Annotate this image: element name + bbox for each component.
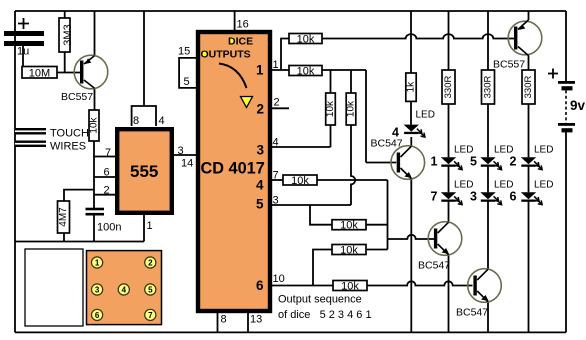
svg-text:7: 7 xyxy=(431,190,438,204)
resistor 330R col2 xyxy=(482,70,495,104)
svg-text:8: 8 xyxy=(221,314,227,326)
svg-text:1k: 1k xyxy=(406,81,417,93)
dice spot 1 xyxy=(92,257,103,268)
svg-text:5: 5 xyxy=(256,197,264,212)
LED 5 xyxy=(470,145,513,170)
wire branch down to 10k xyxy=(310,205,332,225)
ic CD4017 xyxy=(198,32,270,311)
resistor 10k pin1 upper xyxy=(289,34,322,46)
wire 4017 pin3 (dice 5) xyxy=(272,204,351,206)
wire 555 supply column xyxy=(143,11,145,106)
svg-text:1: 1 xyxy=(147,220,153,232)
resistor 10k pin10 xyxy=(333,281,367,293)
dice spot 6 xyxy=(92,309,103,320)
svg-text:CD 4017: CD 4017 xyxy=(201,160,265,178)
svg-text:330R: 330R xyxy=(523,76,534,99)
resistor 10k pin7 xyxy=(283,175,317,187)
LED 3 xyxy=(470,180,513,205)
wire down to 10k A xyxy=(330,70,332,93)
wire 4017 pin7 (dice 7-4) xyxy=(272,179,283,181)
ic 555 xyxy=(104,115,194,232)
wire 100n bottom to ground link xyxy=(93,216,95,242)
svg-text:BC547: BC547 xyxy=(456,307,488,319)
wire 1k top column xyxy=(410,11,412,73)
svg-text:5: 5 xyxy=(184,76,190,88)
resistor 330R col1 xyxy=(442,70,455,104)
svg-text:2: 2 xyxy=(274,97,280,109)
wire 330R col1 top xyxy=(448,11,450,70)
wire battery top column xyxy=(565,11,567,81)
svg-text:8: 8 xyxy=(133,115,139,127)
wire BC557 collector to 10k xyxy=(94,89,96,111)
svg-text:4: 4 xyxy=(122,286,127,295)
wire battery bottom column xyxy=(565,132,567,332)
wire BC547 no1 base xyxy=(366,162,396,164)
svg-text:9v: 9v xyxy=(570,98,586,113)
wire 10k out to verticals xyxy=(322,69,366,71)
svg-text:10k: 10k xyxy=(291,175,309,187)
resistor 10M xyxy=(22,67,57,80)
svg-text:555: 555 xyxy=(130,162,158,181)
wire 10k bottom to 555 pin7 xyxy=(94,141,116,157)
svg-text:DICE: DICE xyxy=(228,36,253,48)
wire 4017 pins 15-5 box xyxy=(179,58,196,88)
transistor BC547 no3 xyxy=(456,269,501,319)
wire 4017 pin13 column xyxy=(247,313,249,332)
wire 555 pins 8-4 box xyxy=(132,106,156,126)
svg-text:10k: 10k xyxy=(340,245,358,257)
wire BC547 no1 emitter to 0v xyxy=(410,179,412,333)
wire LED6 to 0v rail xyxy=(528,202,530,333)
svg-text:6: 6 xyxy=(95,311,100,320)
svg-text:10k: 10k xyxy=(89,116,100,133)
svg-text:4M7: 4M7 xyxy=(58,207,69,227)
LED 2 xyxy=(510,145,554,170)
svg-text:13: 13 xyxy=(250,314,262,326)
touch pad white box xyxy=(25,249,83,326)
svg-text:7: 7 xyxy=(273,170,279,182)
wire BC547 no3 emitter to 0v xyxy=(487,302,489,333)
wire 330R col2 to LED5 xyxy=(487,104,489,157)
wire LED7 to BC547 no2 collector xyxy=(448,202,450,223)
wire bottom 0v rail xyxy=(15,331,566,333)
wire 330R col3 to LED2 xyxy=(528,104,530,157)
svg-text:TOUCH: TOUCH xyxy=(50,128,89,140)
svg-text:Output sequence: Output sequence xyxy=(278,294,362,306)
wire left rail xyxy=(14,11,16,332)
wire 10k lower left link xyxy=(313,250,332,286)
wire down to 10k B xyxy=(350,70,352,93)
wire 10k A to pin4 line xyxy=(330,125,332,147)
svg-text:16: 16 xyxy=(237,19,249,31)
wire 4017 pin10 (dice 6) xyxy=(272,285,333,287)
svg-text:2: 2 xyxy=(148,259,153,268)
svg-text:10M: 10M xyxy=(29,68,50,80)
wire BC557 no2 emitter to top rail xyxy=(528,11,530,20)
wire top +9v rail xyxy=(15,10,566,12)
wire 555 pin2 stub xyxy=(94,194,116,196)
wire 10k lower out xyxy=(366,249,388,251)
svg-text:LED: LED xyxy=(416,110,435,121)
wire 3M3 bottom to base node xyxy=(64,52,66,73)
svg-text:6: 6 xyxy=(256,278,264,293)
resistor 1k xyxy=(406,73,417,101)
svg-text:330R: 330R xyxy=(443,76,454,99)
wire 330R col2 top xyxy=(487,11,489,70)
svg-text:10k: 10k xyxy=(340,220,358,232)
wire LED2 to LED6 xyxy=(528,167,530,193)
dice spot 2 xyxy=(145,257,156,268)
svg-text:WIRES: WIRES xyxy=(50,141,86,153)
svg-text:2: 2 xyxy=(104,185,110,197)
svg-text:7: 7 xyxy=(105,147,111,159)
svg-text:of dice 5 2 3 4 6 1: of dice 5 2 3 4 6 1 xyxy=(278,309,372,321)
wire 1k to LED4 xyxy=(410,101,412,124)
transistor BC557 no2 xyxy=(493,20,542,71)
capacitor 1u xyxy=(4,18,44,58)
wire branch to 4M7 xyxy=(64,190,94,201)
svg-text:6: 6 xyxy=(104,167,110,179)
svg-text:BC547: BC547 xyxy=(418,260,450,272)
wire 330R col1 to LED1 xyxy=(448,104,450,157)
svg-text:7: 7 xyxy=(148,311,153,320)
svg-text:5: 5 xyxy=(148,286,153,295)
wire 10k out xyxy=(366,224,388,226)
resistor 10k pin1 lower xyxy=(289,66,322,78)
svg-text:1: 1 xyxy=(431,155,438,169)
wire 1u cap to 10M resistor xyxy=(22,46,24,66)
wire LED5 to LED3 xyxy=(487,167,489,193)
svg-text:2: 2 xyxy=(257,102,265,117)
dice display box xyxy=(87,251,162,325)
touch wires xyxy=(15,128,89,153)
svg-text:3: 3 xyxy=(95,286,100,295)
LED 7 xyxy=(431,180,474,205)
capacitor 100n xyxy=(86,208,122,234)
battery 9v xyxy=(548,69,586,133)
wire 10k to BC557 base with hops xyxy=(322,34,514,38)
svg-text:3: 3 xyxy=(470,190,477,204)
wire LED4 to BC547 collector xyxy=(410,137,412,147)
svg-text:BC547: BC547 xyxy=(371,138,403,150)
resistor 330R col3 xyxy=(522,70,535,104)
resistor 10k mid lower xyxy=(332,245,366,257)
wire 555 pin3 to 4017 pin14 xyxy=(174,154,196,156)
wire junction column to 100n xyxy=(93,157,95,209)
wire LED3 to BC547 no3 collector xyxy=(487,202,489,270)
resistor 10k vertical A xyxy=(325,93,336,125)
svg-text:3: 3 xyxy=(273,195,279,207)
wire BC557 no2 collector to 330R col3 xyxy=(528,55,530,70)
LED 4 xyxy=(392,110,435,140)
wire 4017 pin16 column xyxy=(234,11,236,30)
svg-text:BC557: BC557 xyxy=(61,91,93,103)
svg-text:10k: 10k xyxy=(297,66,315,78)
svg-text:6: 6 xyxy=(510,190,517,204)
wire 555 pin6 stub xyxy=(94,176,116,178)
dice spot 3 xyxy=(92,284,103,295)
wire ground link rail xyxy=(15,241,144,243)
wire to BC547 no2 base with hop xyxy=(388,235,435,239)
wire 4M7 bottom xyxy=(63,233,65,242)
svg-text:OUTPUTS: OUTPUTS xyxy=(201,49,251,61)
wire LED1 to LED7 xyxy=(448,167,450,193)
svg-text:15: 15 xyxy=(178,46,190,58)
wire pin1 branch up xyxy=(281,39,289,71)
wire 4017 pin2 stub xyxy=(270,107,289,109)
svg-text:100n: 100n xyxy=(97,222,121,234)
dice spot 5 xyxy=(145,284,156,295)
wire BC557 emitter to top rail xyxy=(94,11,96,56)
svg-text:BC557: BC557 xyxy=(493,59,525,71)
svg-text:4: 4 xyxy=(256,178,264,193)
wire BC547 no2 emitter to 0v xyxy=(448,255,450,333)
wire 3M3 top xyxy=(64,11,66,18)
LED 1 xyxy=(431,145,474,170)
resistor 3M3 xyxy=(59,18,74,52)
svg-text:10k: 10k xyxy=(297,34,315,46)
svg-text:330R: 330R xyxy=(483,76,494,99)
svg-text:3: 3 xyxy=(178,145,184,157)
svg-text:10: 10 xyxy=(273,273,285,285)
svg-text:1: 1 xyxy=(256,63,264,78)
dice spot 4 xyxy=(118,284,129,295)
wire mixing vertical xyxy=(387,180,389,250)
wire 4017 pin4 (dice 3) xyxy=(272,146,331,148)
transistor BC547 no1 xyxy=(371,138,425,180)
wire 4017 pin8 column xyxy=(217,313,219,332)
svg-text:LED: LED xyxy=(534,145,553,156)
resistor 4M7 xyxy=(58,201,70,233)
resistor 10k (555 pin7) xyxy=(89,110,100,141)
wire pin10 10k to BC547 no3 base with hops xyxy=(367,281,473,285)
svg-text:10k: 10k xyxy=(341,281,359,293)
transistor BC557 no1 xyxy=(61,55,108,103)
svg-text:10k: 10k xyxy=(325,100,336,117)
wire pin7 10k out xyxy=(317,179,388,181)
transistor BC547 no2 xyxy=(418,222,462,272)
svg-text:4: 4 xyxy=(159,115,165,127)
wire down to BC547 base xyxy=(365,70,367,163)
resistor 10k mid upper xyxy=(332,220,366,232)
wire 10M to BC557 base xyxy=(57,72,80,74)
svg-text:5: 5 xyxy=(470,155,477,169)
svg-text:3M3: 3M3 xyxy=(62,24,74,45)
svg-text:1: 1 xyxy=(95,259,100,268)
svg-text:1u: 1u xyxy=(17,46,29,58)
svg-text:10k: 10k xyxy=(346,100,357,117)
dice spot 7 xyxy=(145,309,156,320)
wire 10k B down with hop xyxy=(351,125,355,205)
svg-text:3: 3 xyxy=(257,143,265,158)
svg-text:LED: LED xyxy=(534,180,553,191)
svg-text:1: 1 xyxy=(273,59,279,71)
svg-text:14: 14 xyxy=(181,158,193,170)
svg-text:2: 2 xyxy=(510,155,517,169)
resistor 10k vertical B xyxy=(346,93,357,125)
wire 4017 pin1 stub xyxy=(272,69,289,71)
LED 6 xyxy=(510,180,554,205)
svg-text:4: 4 xyxy=(273,137,279,149)
wire 555 pin1 column xyxy=(143,215,145,242)
